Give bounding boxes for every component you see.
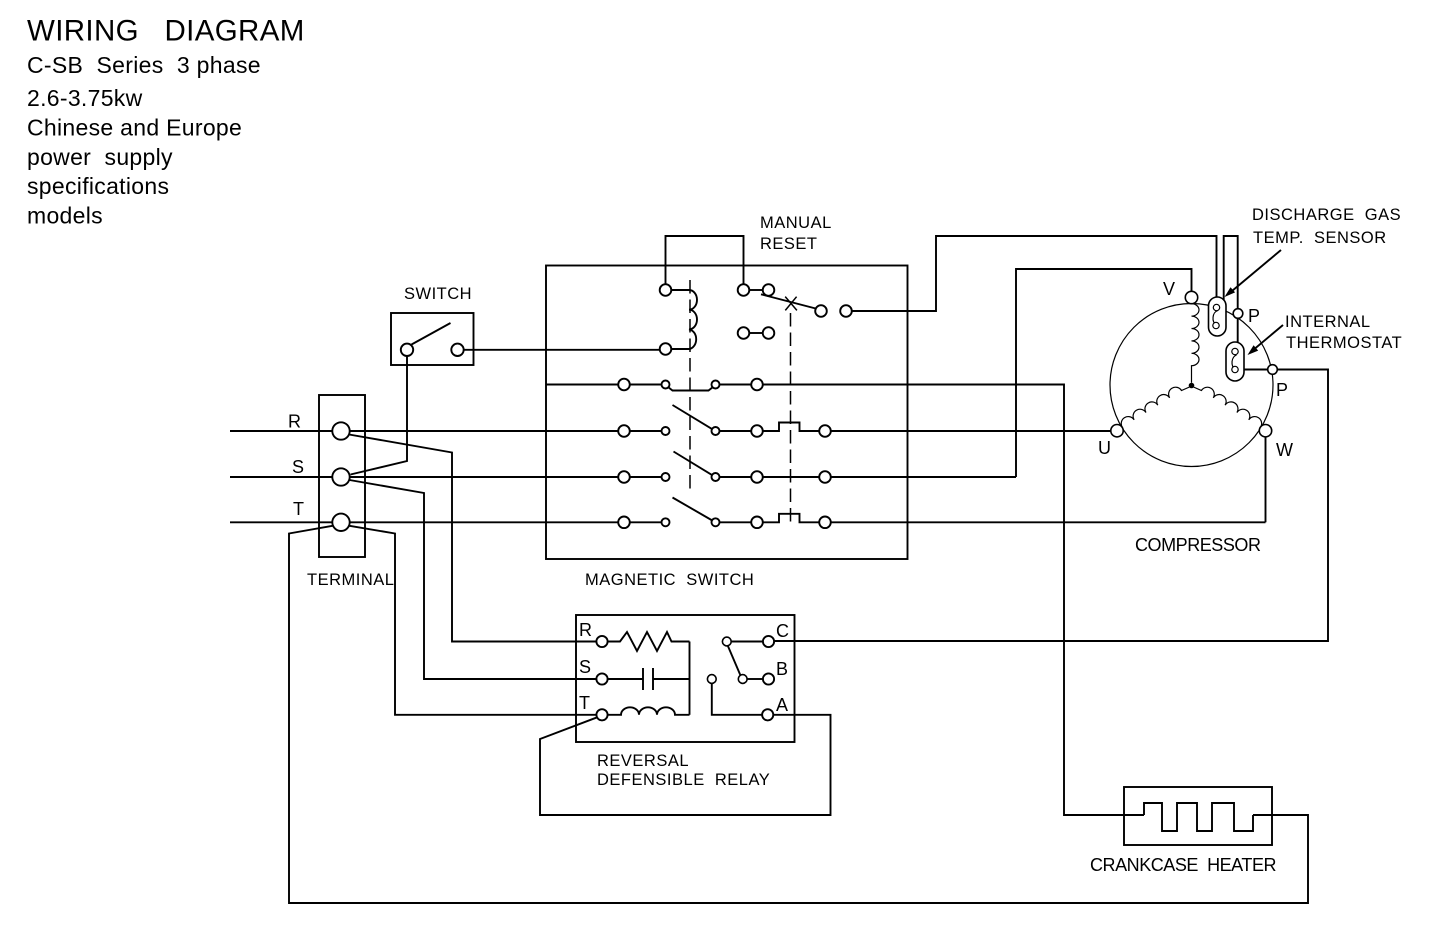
internal thermostat capsule bbox=[1226, 342, 1244, 381]
svg-text:Chinese and Europe: Chinese and Europe bbox=[27, 115, 242, 141]
wire relay A loop to relay T bbox=[540, 715, 831, 815]
relay resistor R bbox=[608, 632, 690, 651]
wire magnetic switch row1 left stub bbox=[546, 384, 662, 386]
sensor element curve bbox=[1213, 311, 1217, 326]
svg-text:S: S bbox=[292, 457, 305, 477]
sensor contact circles bbox=[1213, 304, 1220, 328]
svg-text:COMPRESSOR: COMPRESSOR bbox=[1135, 535, 1261, 555]
svg-text:S: S bbox=[579, 657, 592, 677]
relay terminal circles bbox=[596, 636, 774, 721]
relay switch arm bbox=[728, 646, 740, 675]
svg-text:U: U bbox=[1098, 438, 1112, 458]
wire R phase input to magnetic switch row2 bbox=[230, 430, 662, 432]
svg-text:TEMP. SENSOR: TEMP. SENSOR bbox=[1253, 229, 1387, 247]
crankcase heater element bbox=[1144, 803, 1253, 831]
compressor winding U bbox=[1121, 387, 1189, 427]
wire row3 contact arm bbox=[674, 452, 713, 476]
wire terminal S to relay S bbox=[350, 480, 597, 679]
compressor winding V bbox=[1192, 304, 1200, 383]
switch arm bbox=[412, 323, 451, 345]
svg-text:DEFENSIBLE RELAY: DEFENSIBLE RELAY bbox=[597, 771, 770, 789]
wire row2 contact arm bbox=[673, 405, 713, 429]
middle aux pair circles bbox=[738, 327, 775, 339]
reset X mark bbox=[785, 297, 797, 311]
discharge gas temp sensor capsule bbox=[1209, 297, 1227, 336]
wire middle aux pair link bbox=[749, 332, 763, 334]
svg-text:SWITCH: SWITCH bbox=[404, 285, 472, 303]
crankcase heater box bbox=[1124, 787, 1272, 845]
coil terminal circles bbox=[660, 284, 672, 355]
contactor coil bbox=[671, 290, 697, 349]
switch box bbox=[391, 313, 474, 365]
svg-text:WIRING DIAGRAM: WIRING DIAGRAM bbox=[27, 15, 305, 48]
svg-text:T: T bbox=[293, 499, 305, 519]
svg-text:specifications: specifications bbox=[27, 173, 169, 199]
wire row1 right to crankcase heater left terminal bbox=[716, 385, 1145, 816]
svg-text:models: models bbox=[27, 203, 103, 229]
row2 contact circles bbox=[618, 425, 831, 437]
terminal circles R S T bbox=[332, 422, 349, 531]
svg-text:A: A bbox=[776, 695, 789, 715]
P terminal circle lower bbox=[1268, 365, 1278, 375]
svg-text:C: C bbox=[776, 621, 790, 641]
compressor terminal circles U V W bbox=[1111, 291, 1272, 437]
magnetic switch box bbox=[546, 266, 908, 560]
relay moving contact to B link bbox=[747, 678, 763, 680]
reset contact circles bbox=[738, 284, 852, 317]
svg-text:THERMOSTAT: THERMOSTAT bbox=[1286, 334, 1402, 352]
P terminal circle upper bbox=[1233, 309, 1243, 319]
wire thermostat bottom to P bbox=[1238, 369, 1268, 371]
svg-text:TERMINAL: TERMINAL bbox=[307, 571, 394, 589]
wire S phase input to magnetic switch row3 bbox=[230, 476, 662, 478]
row1 contact circles bbox=[618, 379, 763, 391]
svg-text:INTERNAL: INTERNAL bbox=[1285, 313, 1371, 331]
svg-text:2.6-3.75kw: 2.6-3.75kw bbox=[27, 85, 143, 111]
svg-text:W: W bbox=[1276, 440, 1294, 460]
wire terminal R to relay R bbox=[349, 435, 596, 642]
wire reset contact link bbox=[749, 289, 763, 291]
svg-text:T: T bbox=[579, 693, 591, 713]
svg-text:C-SB Series 3 phase: C-SB Series 3 phase bbox=[27, 52, 261, 78]
reversal defensible relay box bbox=[576, 615, 795, 742]
arrow to internal thermostat bbox=[1252, 325, 1283, 351]
svg-text:RESET: RESET bbox=[760, 235, 818, 253]
relay small contact circles bbox=[707, 637, 747, 683]
relay capacitor S bbox=[608, 668, 690, 690]
wire switch right terminal to contactor coil bbox=[464, 349, 660, 351]
wire row3 right to x1016 bbox=[716, 476, 1017, 478]
relay coil T bbox=[608, 707, 690, 714]
dashed actuator line 1 bbox=[689, 280, 691, 490]
svg-text:MAGNETIC SWITCH: MAGNETIC SWITCH bbox=[585, 571, 754, 589]
wire manual reset loop bbox=[666, 236, 744, 285]
wire row4 contact arm bbox=[673, 498, 713, 521]
svg-text:CRANKCASE HEATER: CRANKCASE HEATER bbox=[1090, 855, 1277, 875]
svg-text:R: R bbox=[579, 620, 593, 640]
dashed actuator line 2 bbox=[790, 313, 792, 527]
wire terminal T to relay T bbox=[350, 526, 597, 715]
thermostat contact circles bbox=[1232, 348, 1238, 372]
svg-text:P: P bbox=[1248, 306, 1261, 326]
compressor shell circle bbox=[1110, 304, 1273, 467]
wire T phase input to magnetic switch row4 bbox=[230, 521, 662, 523]
title block bbox=[27, 15, 305, 48]
arrow to discharge sensor bbox=[1229, 250, 1281, 294]
svg-text:power supply: power supply bbox=[27, 144, 173, 170]
thermostat element curve bbox=[1232, 355, 1236, 370]
wire W terminal drop to row4 bbox=[1265, 437, 1267, 522]
row3 contact circles bbox=[618, 471, 831, 483]
wire thermostat P to relay C rail bbox=[774, 370, 1328, 642]
arrowhead thermostat bbox=[1248, 345, 1259, 355]
arrowhead discharge bbox=[1225, 287, 1236, 297]
terminal block box bbox=[319, 395, 365, 557]
wire V terminal riser from row3 bbox=[1016, 269, 1192, 477]
svg-text:DISCHARGE GAS: DISCHARGE GAS bbox=[1252, 206, 1401, 224]
wire row2 right with overload bump to U bbox=[716, 423, 1111, 432]
compressor winding W bbox=[1194, 387, 1262, 427]
switch terminal circles bbox=[401, 344, 464, 356]
wire row1 bridge contact bbox=[668, 387, 713, 391]
wire reset contacts to discharge sensor bbox=[852, 236, 1217, 311]
wire sensor pair riser bbox=[1224, 236, 1238, 349]
svg-text:V: V bbox=[1163, 279, 1176, 299]
wire row4 right with overload bump to W drop bbox=[716, 514, 1266, 523]
compressor star point bbox=[1189, 383, 1195, 389]
row4 contact circles bbox=[618, 517, 831, 529]
relay pivot to C link bbox=[731, 641, 763, 643]
wire switch left terminal down to terminal S bbox=[351, 356, 408, 475]
svg-text:R: R bbox=[288, 412, 302, 432]
svg-text:REVERSAL: REVERSAL bbox=[597, 752, 689, 770]
svg-text:P: P bbox=[1276, 380, 1289, 400]
relay right bus bbox=[689, 642, 691, 715]
wire terminal T to bottom rail and crankcase heater right bbox=[289, 526, 1308, 903]
svg-text:MANUAL: MANUAL bbox=[760, 214, 832, 232]
wire reset switch arm bbox=[761, 294, 816, 308]
relay common drop to A bbox=[712, 683, 762, 714]
svg-text:B: B bbox=[776, 659, 789, 679]
